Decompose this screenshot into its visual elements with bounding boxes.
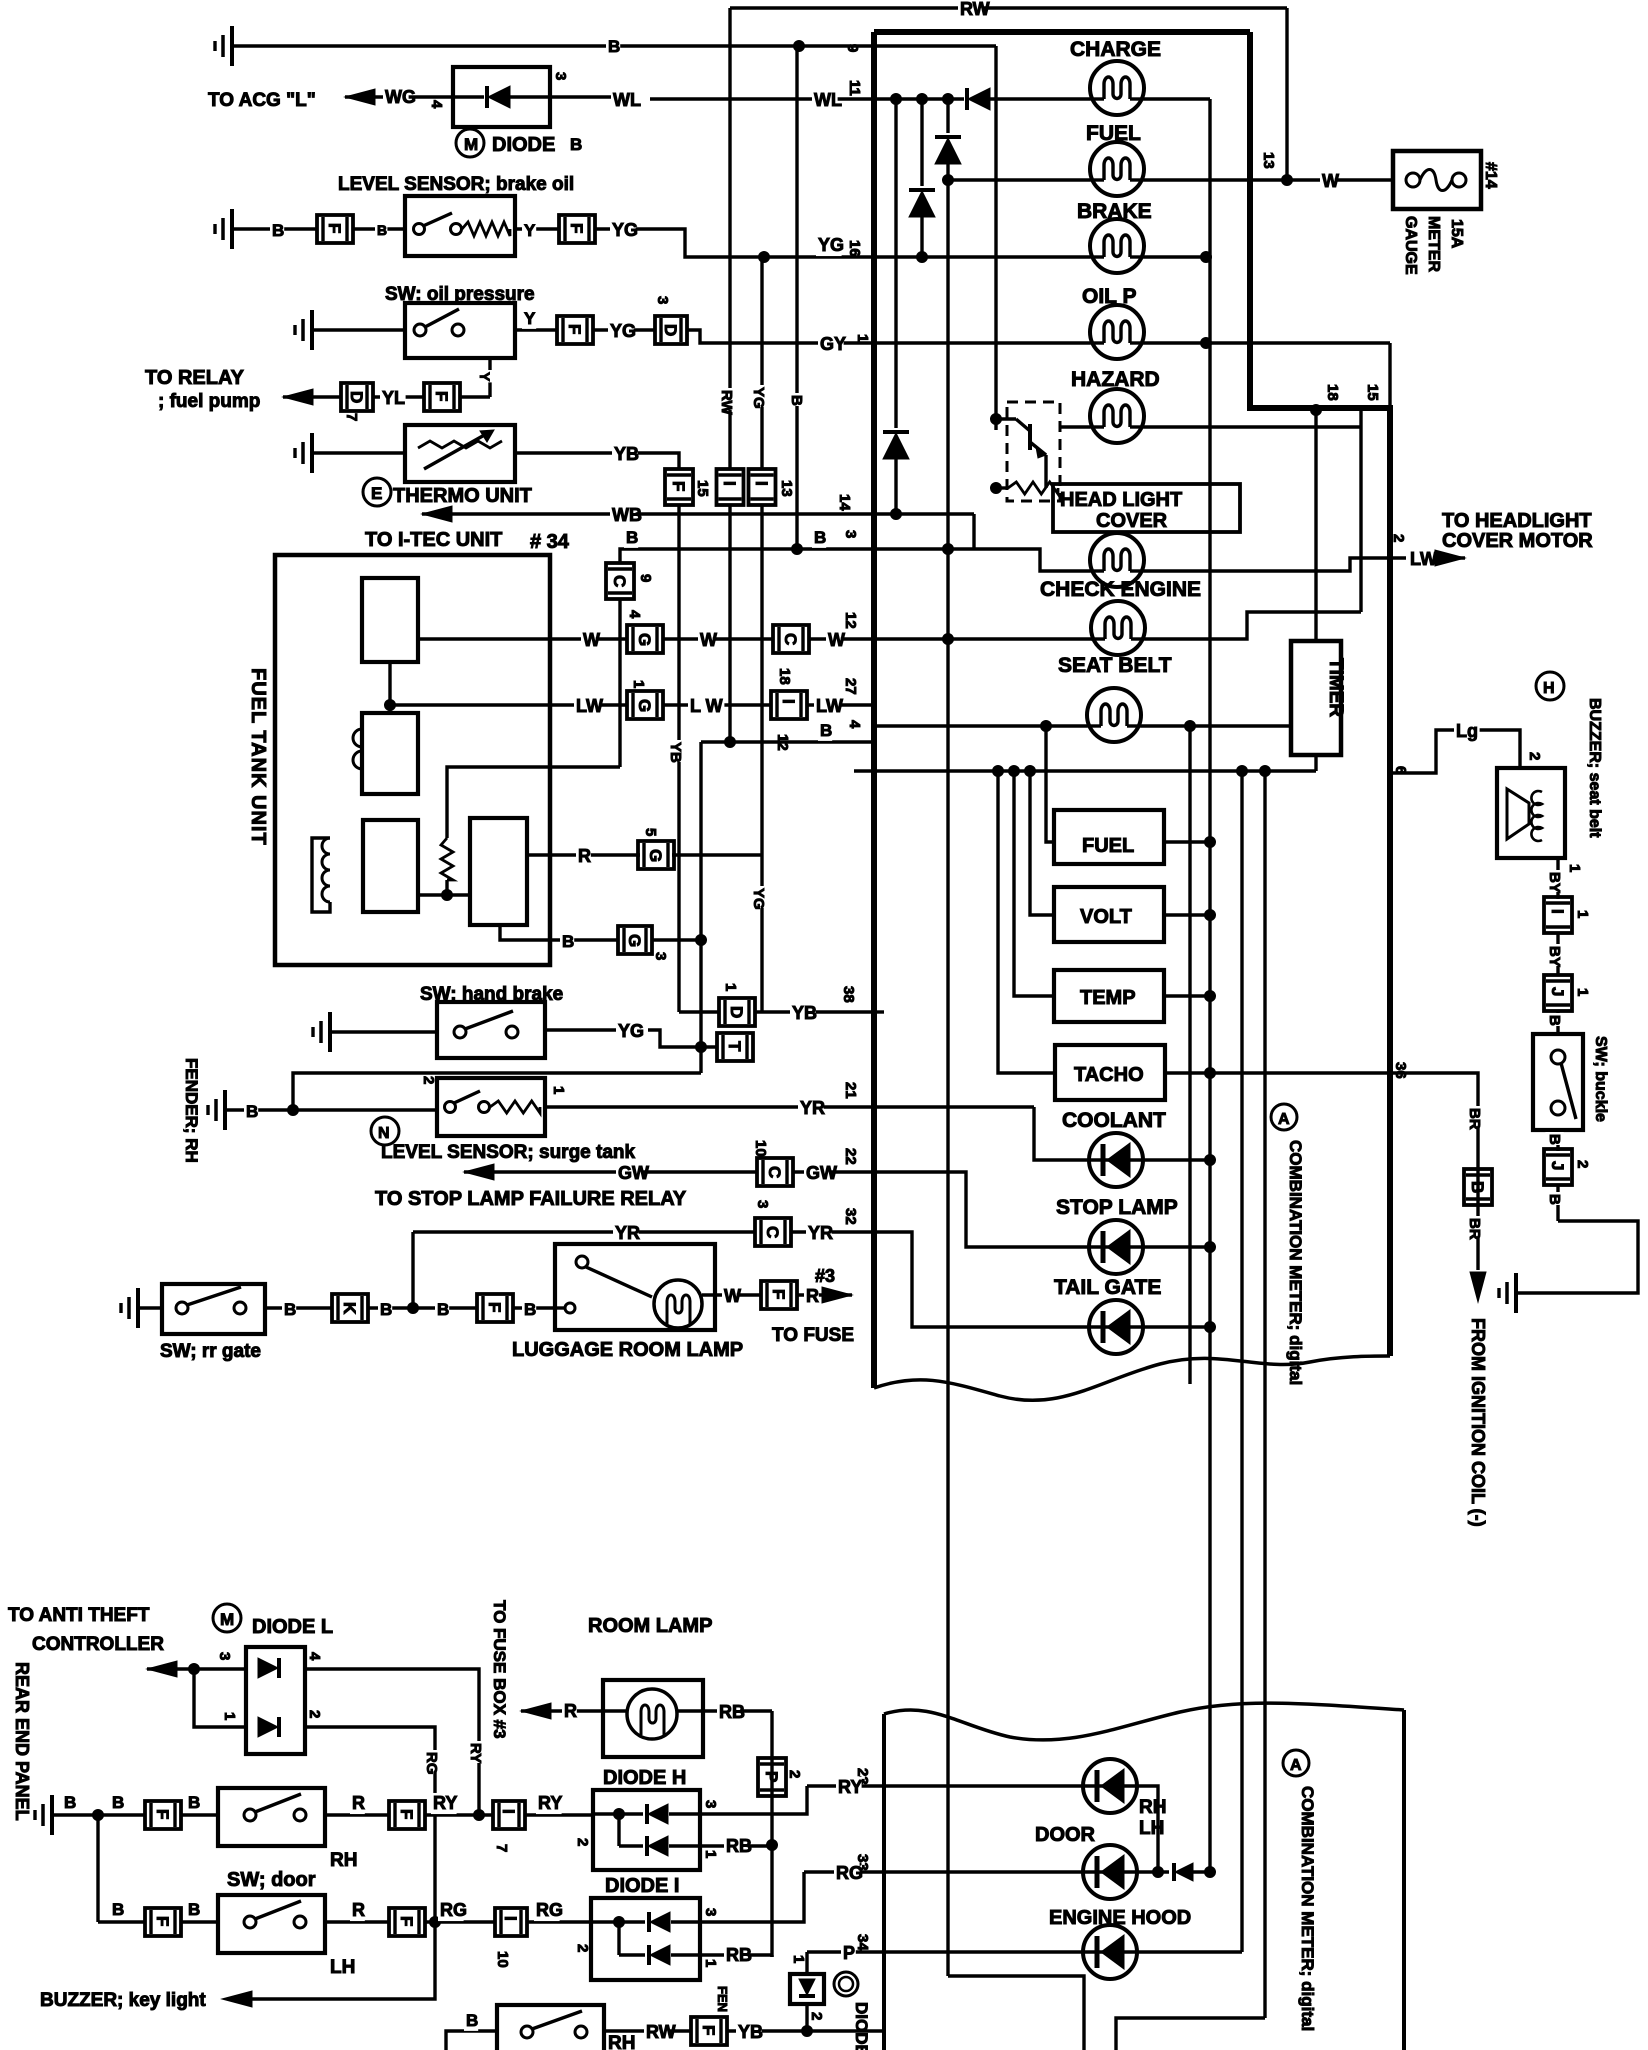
- svg-text:J: J: [1548, 987, 1567, 996]
- svg-text:YG: YG: [618, 1021, 644, 1041]
- svg-text:38: 38: [840, 986, 857, 1003]
- svg-text:3: 3: [654, 296, 671, 304]
- svg-text:2: 2: [306, 1710, 323, 1718]
- svg-text:YR: YR: [800, 1098, 825, 1118]
- svg-text:FUEL: FUEL: [1086, 122, 1141, 145]
- svg-text:YB: YB: [738, 2022, 763, 2042]
- svg-text:RG: RG: [836, 1863, 863, 1883]
- svg-text:18: 18: [1324, 384, 1341, 401]
- svg-text:M: M: [464, 135, 478, 154]
- svg-text:2: 2: [808, 2012, 825, 2020]
- svg-text:6: 6: [1392, 766, 1409, 774]
- svg-text:#14: #14: [1482, 162, 1499, 189]
- svg-text:VOLT: VOLT: [1080, 906, 1132, 928]
- svg-text:G: G: [635, 699, 654, 712]
- svg-text:BUZZER; key light: BUZZER; key light: [40, 1990, 206, 2011]
- svg-text:B: B: [64, 1793, 76, 1812]
- svg-text:P: P: [843, 1943, 855, 1963]
- svg-text:G: G: [635, 633, 654, 646]
- svg-text:TO FUSE: TO FUSE: [772, 1325, 854, 1346]
- svg-text:CONTROLLER: CONTROLLER: [32, 1634, 164, 1655]
- svg-text:I: I: [501, 1916, 520, 1921]
- svg-text:10: 10: [752, 1140, 769, 1157]
- svg-text:2: 2: [574, 1838, 591, 1846]
- svg-text:TACHO: TACHO: [1074, 1064, 1144, 1086]
- svg-text:B: B: [524, 1300, 536, 1319]
- svg-text:B: B: [437, 1300, 449, 1319]
- svg-text:STOP LAMP: STOP LAMP: [1056, 1196, 1178, 1219]
- svg-text:7: 7: [343, 413, 360, 421]
- svg-text:YL: YL: [382, 388, 405, 408]
- svg-text:B: B: [788, 395, 805, 406]
- svg-text:B: B: [377, 222, 387, 238]
- svg-text:3: 3: [754, 1200, 771, 1208]
- svg-text:B: B: [570, 135, 582, 154]
- svg-text:B: B: [1468, 1181, 1487, 1193]
- svg-text:11: 11: [846, 80, 863, 96]
- svg-text:RB: RB: [726, 1836, 752, 1856]
- svg-text:TO I-TEC UNIT: TO I-TEC UNIT: [365, 529, 502, 551]
- svg-text:9: 9: [844, 44, 861, 52]
- svg-text:B: B: [1546, 1134, 1563, 1145]
- svg-text:GY: GY: [820, 334, 846, 354]
- svg-text:1: 1: [1574, 988, 1591, 996]
- svg-text:SW; door: SW; door: [227, 1869, 316, 1891]
- svg-text:F: F: [485, 1302, 504, 1312]
- svg-text:CHECK ENGINE: CHECK ENGINE: [1040, 578, 1201, 601]
- svg-text:27: 27: [842, 678, 859, 695]
- svg-text:RH: RH: [608, 2033, 635, 2050]
- svg-text:RH: RH: [1139, 1797, 1166, 1818]
- svg-text:CHARGE: CHARGE: [1070, 38, 1161, 61]
- svg-text:1: 1: [722, 983, 739, 991]
- svg-text:C: C: [610, 575, 629, 587]
- svg-text:B: B: [112, 1900, 124, 1919]
- svg-text:C: C: [781, 633, 800, 645]
- svg-text:LW: LW: [816, 696, 843, 716]
- svg-text:WL: WL: [814, 90, 842, 110]
- svg-text:RW: RW: [960, 0, 990, 19]
- svg-text:3: 3: [702, 1908, 719, 1916]
- svg-text:WG: WG: [385, 87, 416, 107]
- svg-text:F: F: [769, 1289, 788, 1299]
- svg-text:D: D: [347, 391, 366, 403]
- svg-text:TO STOP LAMP FAILURE RELAY: TO STOP LAMP FAILURE RELAY: [375, 1188, 687, 1210]
- svg-text:1: 1: [1574, 910, 1591, 918]
- svg-text:BR: BR: [1466, 1108, 1483, 1130]
- svg-text:D: D: [727, 1006, 746, 1018]
- svg-text:FENDER; RH: FENDER; RH: [182, 1058, 201, 1163]
- svg-text:2: 2: [1574, 1160, 1591, 1168]
- svg-text:DIODE: DIODE: [852, 2002, 871, 2050]
- svg-text:DOOR: DOOR: [1035, 1824, 1096, 1846]
- svg-text:32: 32: [842, 1208, 859, 1225]
- svg-text:DIODE: DIODE: [492, 134, 555, 156]
- svg-text:LEVEL SENSOR; surge tank: LEVEL SENSOR; surge tank: [381, 1142, 636, 1163]
- svg-text:W: W: [724, 1286, 741, 1306]
- svg-text:FUEL TANK UNIT: FUEL TANK UNIT: [247, 668, 269, 846]
- svg-text:RY: RY: [433, 1793, 457, 1813]
- svg-text:1: 1: [1566, 864, 1583, 872]
- svg-text:15A: 15A: [1448, 219, 1465, 249]
- svg-text:B: B: [284, 1300, 296, 1319]
- svg-text:P: P: [762, 1771, 781, 1782]
- svg-text:R: R: [352, 1900, 365, 1920]
- svg-text:BY: BY: [1546, 872, 1563, 893]
- svg-text:COVER: COVER: [1096, 510, 1168, 532]
- svg-text:GW: GW: [806, 1163, 837, 1183]
- svg-text:YR: YR: [808, 1223, 833, 1243]
- svg-text:BY: BY: [1546, 946, 1563, 967]
- svg-text:16: 16: [846, 240, 863, 257]
- svg-text:36: 36: [1392, 1062, 1409, 1079]
- svg-text:B: B: [380, 1300, 392, 1319]
- svg-text:Lg: Lg: [1456, 721, 1478, 741]
- svg-text:REAR END PANEL: REAR END PANEL: [12, 1662, 32, 1821]
- svg-text:DIODE L: DIODE L: [252, 1616, 333, 1638]
- svg-text:WL: WL: [613, 90, 641, 110]
- svg-text:; fuel pump: ; fuel pump: [158, 391, 260, 412]
- svg-text:COMBINATION METER; digital: COMBINATION METER; digital: [1298, 1786, 1317, 2031]
- svg-text:15: 15: [694, 480, 711, 497]
- svg-text:BRAKE: BRAKE: [1077, 200, 1152, 223]
- svg-text:F: F: [397, 1809, 416, 1819]
- svg-text:C: C: [765, 1166, 784, 1178]
- svg-text:YG: YG: [818, 235, 844, 255]
- svg-text:21: 21: [842, 1082, 859, 1099]
- svg-text:YG: YG: [750, 888, 767, 910]
- svg-text:# 34: # 34: [530, 531, 570, 553]
- svg-text:4: 4: [626, 610, 643, 619]
- svg-text:TO RELAY: TO RELAY: [145, 367, 245, 389]
- svg-text:OIL P: OIL P: [1082, 285, 1136, 308]
- svg-text:TEMP: TEMP: [1080, 987, 1136, 1009]
- svg-text:RW: RW: [718, 390, 735, 416]
- svg-text:10: 10: [494, 1951, 511, 1968]
- svg-text:TO ACG "L": TO ACG "L": [208, 90, 316, 111]
- svg-text:4: 4: [846, 720, 863, 729]
- svg-text:GW: GW: [618, 1163, 649, 1183]
- svg-text:22: 22: [842, 1148, 859, 1165]
- svg-text:T: T: [725, 1041, 744, 1052]
- svg-text:A: A: [1290, 1757, 1302, 1774]
- svg-text:YG: YG: [610, 321, 636, 341]
- svg-text:13: 13: [778, 480, 795, 497]
- svg-text:I: I: [499, 1809, 518, 1814]
- svg-text:F: F: [432, 391, 451, 401]
- svg-text:15: 15: [1364, 384, 1381, 401]
- svg-text:7: 7: [493, 1844, 510, 1852]
- svg-text:RG: RG: [423, 1752, 440, 1775]
- svg-text:4: 4: [306, 1652, 323, 1661]
- svg-text:YB: YB: [667, 742, 684, 763]
- svg-text:B: B: [188, 1793, 200, 1812]
- svg-text:E: E: [371, 484, 382, 503]
- svg-text:W: W: [700, 630, 717, 650]
- svg-text:2: 2: [1526, 752, 1543, 760]
- svg-text:RB: RB: [719, 1702, 745, 1722]
- svg-text:B: B: [814, 528, 826, 547]
- svg-text:DIODE I: DIODE I: [605, 1875, 679, 1897]
- svg-text:METER: METER: [1425, 216, 1442, 272]
- svg-text:9: 9: [637, 574, 654, 582]
- svg-text:3: 3: [652, 952, 669, 960]
- svg-text:C: C: [763, 1226, 782, 1238]
- svg-text:W: W: [828, 630, 845, 650]
- svg-text:Y: Y: [524, 309, 536, 328]
- svg-text:G: G: [646, 849, 665, 862]
- svg-text:Y: Y: [524, 221, 536, 240]
- svg-text:2: 2: [786, 1770, 803, 1778]
- svg-text:#3: #3: [815, 1266, 835, 1286]
- svg-text:F: F: [153, 1916, 172, 1926]
- svg-text:YG: YG: [612, 220, 638, 240]
- svg-text:B: B: [1546, 1015, 1563, 1026]
- svg-text:F: F: [397, 1916, 416, 1926]
- svg-text:I: I: [752, 481, 771, 486]
- svg-text:I: I: [720, 481, 739, 486]
- svg-text:R: R: [578, 846, 591, 866]
- svg-text:RH: RH: [330, 1850, 357, 1871]
- svg-text:I: I: [779, 699, 798, 704]
- svg-text:W: W: [1322, 171, 1339, 191]
- svg-text:D: D: [661, 324, 680, 336]
- svg-text:1: 1: [550, 1086, 567, 1094]
- svg-text:2: 2: [420, 1076, 437, 1084]
- svg-text:TO ANTI THEFT: TO ANTI THEFT: [8, 1605, 150, 1626]
- svg-text:R: R: [352, 1793, 365, 1813]
- svg-text:FUEL: FUEL: [1082, 835, 1134, 857]
- svg-text:5: 5: [642, 828, 659, 836]
- svg-text:LH: LH: [330, 1957, 355, 1978]
- svg-text:Y: Y: [477, 372, 493, 382]
- svg-text:RG: RG: [440, 1900, 467, 1920]
- svg-text:RY: RY: [838, 1777, 862, 1797]
- svg-text:FROM IGNITION COIL (-): FROM IGNITION COIL (-): [1468, 1318, 1488, 1527]
- svg-text:F: F: [565, 324, 584, 334]
- svg-text:TAIL GATE: TAIL GATE: [1054, 1276, 1161, 1299]
- svg-text:B: B: [466, 2011, 478, 2030]
- svg-text:H: H: [1543, 680, 1555, 697]
- svg-text:1: 1: [630, 680, 647, 688]
- svg-text:ROOM LAMP: ROOM LAMP: [588, 1615, 712, 1637]
- svg-text:RB: RB: [726, 1945, 752, 1965]
- svg-text:R: R: [806, 1286, 819, 1306]
- svg-text:4: 4: [428, 100, 445, 109]
- svg-text:SW; rr gate: SW; rr gate: [160, 1341, 261, 1362]
- svg-text:BUZZER; seat belt: BUZZER; seat belt: [1586, 698, 1603, 838]
- svg-text:GAUGE: GAUGE: [1402, 216, 1419, 275]
- svg-text:TO HEADLIGHT: TO HEADLIGHT: [1442, 510, 1592, 532]
- svg-text:B: B: [1546, 1194, 1563, 1205]
- svg-text:1: 1: [790, 1955, 807, 1963]
- svg-text:F: F: [669, 481, 688, 491]
- svg-text:RY: RY: [467, 1743, 484, 1763]
- svg-text:A: A: [1278, 1111, 1290, 1128]
- svg-text:THERMO UNIT: THERMO UNIT: [393, 485, 532, 507]
- svg-text:COVER MOTOR: COVER MOTOR: [1442, 530, 1593, 552]
- svg-text:TO FUSE BOX #3: TO FUSE BOX #3: [490, 1600, 509, 1739]
- svg-text:B: B: [626, 528, 638, 547]
- svg-text:HAZARD: HAZARD: [1071, 368, 1160, 391]
- svg-text:34: 34: [854, 1934, 871, 1951]
- svg-text:3: 3: [552, 72, 569, 80]
- svg-text:COMBINATION METER; digital: COMBINATION METER; digital: [1286, 1140, 1305, 1385]
- svg-text:R: R: [564, 1701, 577, 1721]
- svg-text:LUGGAGE ROOM LAMP: LUGGAGE ROOM LAMP: [512, 1339, 743, 1361]
- svg-text:K: K: [340, 1302, 359, 1315]
- svg-text:LW: LW: [576, 696, 603, 716]
- svg-text:W: W: [583, 630, 600, 650]
- svg-text:3: 3: [216, 1652, 233, 1660]
- svg-text:YR: YR: [615, 1223, 640, 1243]
- svg-text:RW: RW: [646, 2022, 676, 2042]
- svg-text:B: B: [112, 1793, 124, 1812]
- svg-text:RY: RY: [538, 1793, 562, 1813]
- svg-text:B: B: [820, 721, 832, 740]
- svg-text:COOLANT: COOLANT: [1062, 1109, 1166, 1132]
- svg-text:B: B: [272, 221, 284, 240]
- svg-text:SEAT BELT: SEAT BELT: [1058, 654, 1172, 677]
- svg-text:TIMER: TIMER: [1325, 658, 1346, 717]
- svg-text:SW; buckle: SW; buckle: [1592, 1036, 1609, 1122]
- svg-text:ENGINE HOOD: ENGINE HOOD: [1049, 1907, 1191, 1929]
- svg-text:F: F: [325, 223, 344, 233]
- svg-text:1: 1: [221, 1712, 238, 1720]
- svg-text:3: 3: [702, 1800, 719, 1808]
- svg-text:DIODE H: DIODE H: [603, 1767, 686, 1789]
- svg-text:B: B: [608, 37, 620, 56]
- svg-text:1: 1: [854, 334, 871, 342]
- svg-text:J: J: [1548, 1161, 1567, 1170]
- svg-text:18: 18: [776, 668, 793, 685]
- svg-text:B: B: [246, 1102, 258, 1121]
- svg-text:LH: LH: [1139, 1818, 1164, 1839]
- svg-text:2: 2: [1390, 534, 1407, 542]
- svg-text:G: G: [625, 934, 644, 947]
- svg-text:LW: LW: [1410, 549, 1437, 569]
- svg-text:YG: YG: [750, 387, 767, 409]
- svg-text:HEAD LIGHT: HEAD LIGHT: [1060, 489, 1182, 511]
- svg-text:1: 1: [702, 1850, 719, 1858]
- svg-text:YB: YB: [614, 444, 639, 464]
- svg-text:WB: WB: [612, 505, 642, 525]
- svg-text:F: F: [699, 2025, 718, 2035]
- svg-text:1: 1: [702, 1959, 719, 1967]
- svg-text:14: 14: [836, 494, 853, 511]
- svg-text:F: F: [567, 223, 586, 233]
- svg-text:RG: RG: [536, 1900, 563, 1920]
- svg-text:YB: YB: [792, 1003, 817, 1023]
- svg-text:LEVEL SENSOR; brake oil: LEVEL SENSOR; brake oil: [338, 174, 574, 195]
- svg-text:B: B: [562, 932, 574, 951]
- svg-text:I: I: [1548, 909, 1567, 914]
- svg-text:13: 13: [1260, 152, 1277, 169]
- svg-text:3: 3: [842, 530, 859, 538]
- svg-text:M: M: [220, 1610, 234, 1629]
- svg-text:FEN: FEN: [715, 1986, 730, 2012]
- svg-text:BR: BR: [1466, 1218, 1483, 1240]
- svg-text:L W: L W: [690, 696, 723, 716]
- svg-text:12: 12: [842, 612, 859, 629]
- svg-text:F: F: [153, 1809, 172, 1819]
- svg-text:B: B: [188, 1900, 200, 1919]
- svg-text:N: N: [378, 1125, 390, 1142]
- svg-text:2: 2: [574, 1944, 591, 1952]
